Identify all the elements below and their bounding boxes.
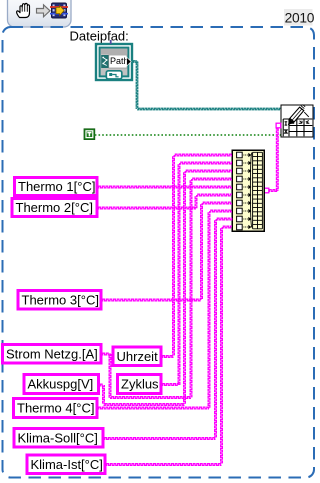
toolbar LabVIEW run icon <box>50 3 68 18</box>
toolbar hand tool icon <box>17 3 30 17</box>
svg-text:Akkuspg[V]: Akkuspg[V] <box>28 377 94 392</box>
toolbar arrow icon <box>37 5 51 17</box>
string constant Thermo 3 <box>18 291 101 310</box>
string constant Zyklus <box>118 375 162 394</box>
wire Klima-Ist to Build Array input 10 <box>105 464 222 466</box>
svg-text:Thermo 2[°C]: Thermo 2[°C] <box>16 200 93 215</box>
string constant Thermo 2 <box>12 199 97 217</box>
string constant Uhrzeit <box>113 347 161 366</box>
string constant Akkuspg <box>24 375 99 394</box>
wire Build Array output to Write To Spreadsheet node <box>264 190 277 192</box>
toolbar panel <box>8 0 72 27</box>
Write To Spreadsheet File node <box>281 105 313 137</box>
wire Thermo 2 to Build Array input 6 <box>97 207 196 209</box>
svg-text:Klima-Soll[°C]: Klima-Soll[°C] <box>18 430 98 445</box>
string constant Klima-Ist <box>27 455 105 474</box>
svg-text:Klima-Ist[°C]: Klima-Ist[°C] <box>31 457 103 472</box>
wire Klima-Soll to Build Array input 9 <box>103 438 216 440</box>
path wire to Write node <box>132 61 137 63</box>
string constant Strom Netzg <box>3 345 102 364</box>
svg-text:2010: 2010 <box>285 10 315 25</box>
svg-text:Thermo 4[°C]: Thermo 4[°C] <box>17 401 94 416</box>
boolean wire to Write node <box>95 134 281 136</box>
wire Akkuspg to Build Array input 3 <box>99 384 104 386</box>
svg-text:Strom Netzg.[A]: Strom Netzg.[A] <box>6 346 98 361</box>
svg-text:Path: Path <box>110 56 129 66</box>
svg-text:Dateipfad:: Dateipfad: <box>70 29 129 44</box>
pencil <box>288 119 294 125</box>
wire Strom Netzg to Build Array input 4 <box>101 353 110 355</box>
boolean TRUE constant <box>84 129 95 140</box>
file path constant <box>96 40 132 80</box>
wire Zyklus to Build Array input 2 <box>161 384 179 386</box>
wire Thermo 4 to Build Array input 8 <box>97 407 209 409</box>
wire Uhrzeit to Build Array input 1 <box>161 356 174 358</box>
string constant Thermo 1 <box>15 178 98 196</box>
string constant Thermo 4 <box>14 399 98 418</box>
svg-text:Thermo 3[°C]: Thermo 3[°C] <box>22 292 99 307</box>
year label 2010 <box>284 9 315 26</box>
svg-text:Thermo 1[°C]: Thermo 1[°C] <box>18 179 95 194</box>
svg-text:Uhrzeit: Uhrzeit <box>117 349 159 364</box>
wire Thermo 3 to Build Array input 7 <box>101 299 202 301</box>
svg-text:Zyklus: Zyklus <box>121 377 159 392</box>
wire Thermo 1 to Build Array input 5 <box>97 186 232 188</box>
Build Array node <box>232 150 264 231</box>
string constant Klima-Soll <box>14 429 103 448</box>
